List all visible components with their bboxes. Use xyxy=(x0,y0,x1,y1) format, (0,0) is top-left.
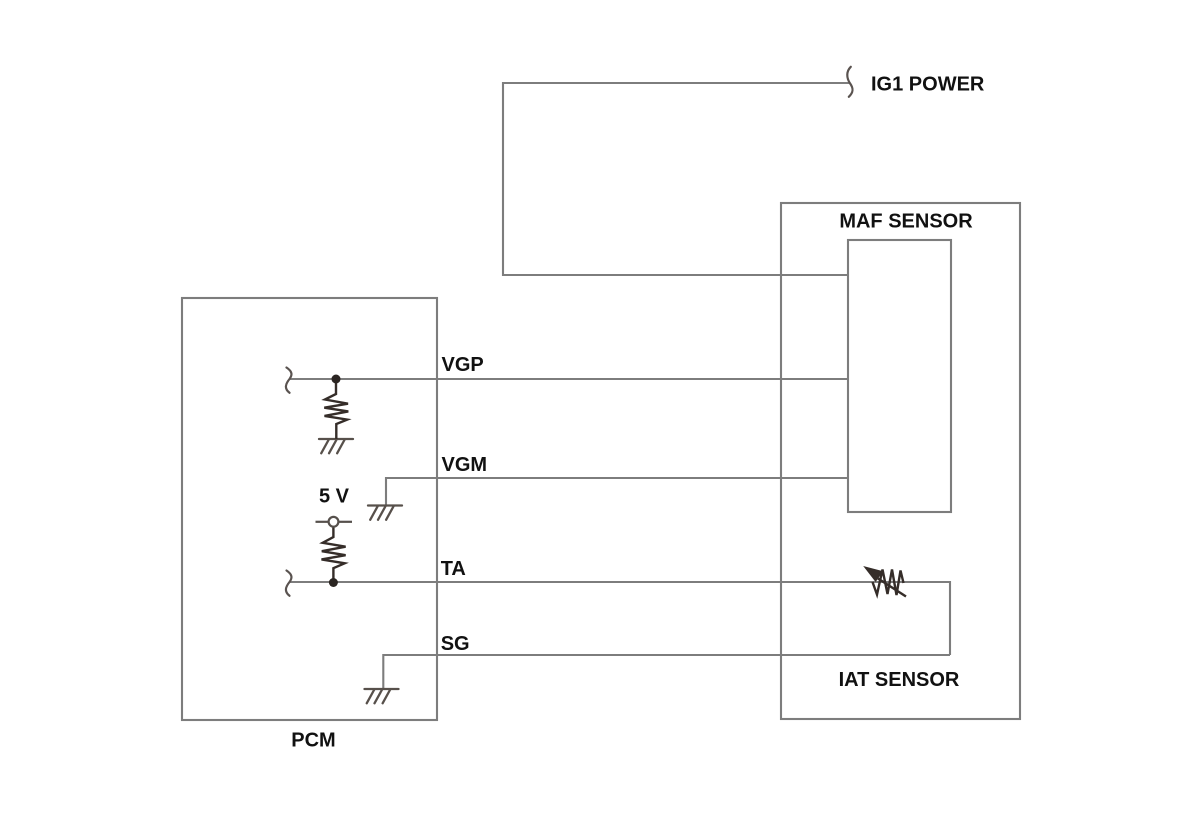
svg-text:TA: TA xyxy=(441,558,466,580)
svg-text:IAT SENSOR: IAT SENSOR xyxy=(839,669,960,691)
svg-text:VGP: VGP xyxy=(442,354,484,376)
svg-text:VGM: VGM xyxy=(442,454,488,476)
svg-text:5 V: 5 V xyxy=(319,486,350,508)
svg-text:PCM: PCM xyxy=(291,730,335,752)
svg-text:MAF SENSOR: MAF SENSOR xyxy=(839,211,973,233)
svg-text:IG1 POWER: IG1 POWER xyxy=(871,74,985,96)
svg-text:SG: SG xyxy=(441,633,470,655)
